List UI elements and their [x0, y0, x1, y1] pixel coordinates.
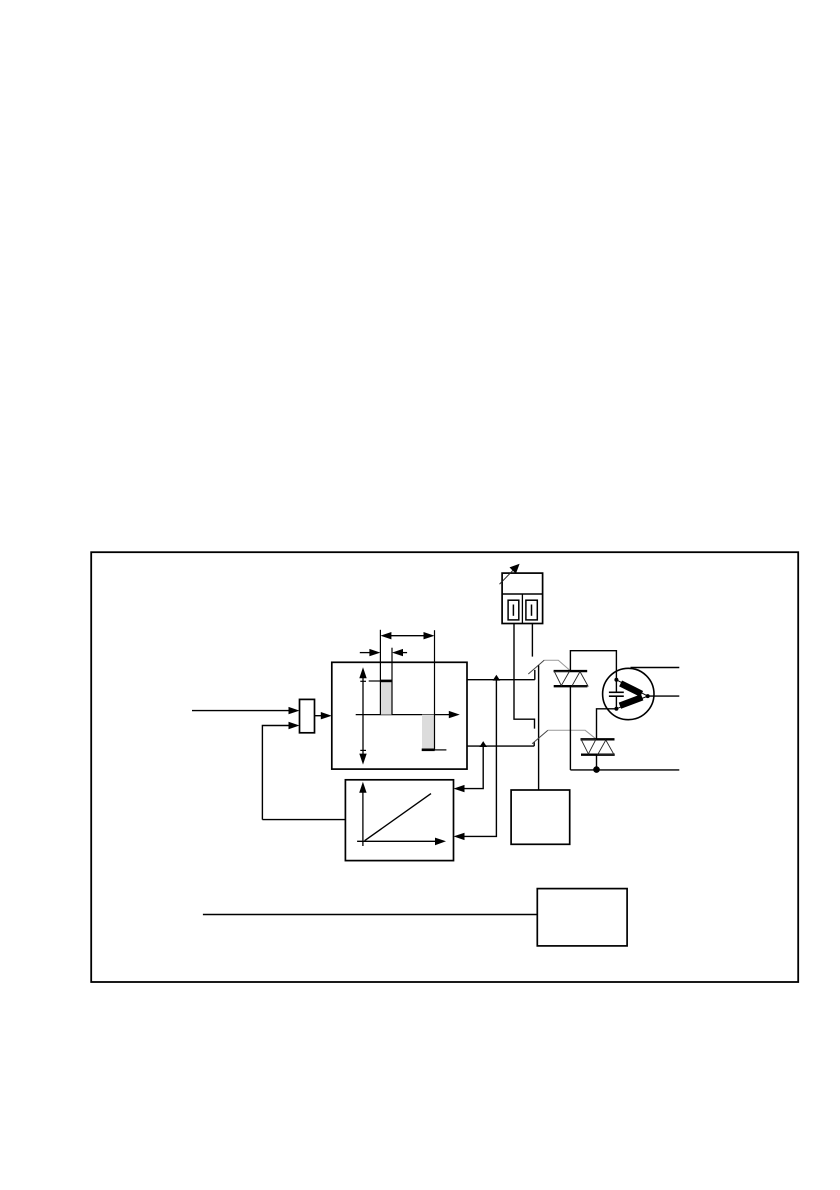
measurement line pulse end — [391, 648, 393, 715]
wire triac V2 bottom down — [596, 755, 598, 770]
wire mains bottom — [570, 769, 679, 771]
wire potentiometer left terminal down — [514, 624, 535, 729]
wire B to ramp upper input — [454, 746, 484, 792]
triac V2 right triangle — [598, 740, 614, 754]
PWM positive pulse bar — [369, 681, 393, 715]
ramp horizontal axis arrow — [357, 838, 446, 846]
wire mains middle — [648, 695, 680, 697]
wire feedback to comparator — [262, 722, 299, 820]
triac V1 right triangle — [572, 672, 588, 686]
dimension arrow pulse width right — [392, 649, 407, 656]
triac V1 bottom bar — [554, 685, 588, 687]
comparator block — [300, 699, 315, 732]
potentiometer adjustment arrow — [500, 564, 520, 585]
PWM block — [332, 662, 467, 769]
ramp slope line — [365, 794, 431, 841]
measurement line pulse start — [379, 630, 381, 715]
wire mains top — [631, 667, 680, 669]
dimension arrow period T — [380, 632, 434, 639]
measurement line period end — [434, 630, 436, 750]
junction node on wire B — [479, 741, 487, 747]
triac V1 left triangle — [554, 671, 569, 685]
wire triac V2 top to motor bottom node — [597, 709, 617, 740]
motor capacitor — [609, 680, 624, 709]
junction node bottom rail — [593, 766, 600, 773]
triac V2 left triangle — [581, 740, 596, 754]
wire PWM output B — [467, 742, 534, 746]
potentiometer terminal left — [508, 600, 519, 620]
motor circle M — [603, 668, 654, 719]
wire ramp output feedback — [262, 819, 345, 821]
ramp generator block — [345, 780, 453, 861]
ramp vertical axis arrow — [359, 782, 366, 846]
switch S2 blade — [532, 730, 548, 744]
potentiometer body — [502, 573, 542, 623]
wire load input — [203, 914, 537, 916]
motor node bottom — [614, 707, 618, 711]
switch S1 linkage to triac gate — [544, 660, 570, 670]
junction node on wire A — [493, 675, 501, 681]
triac V2 top bar — [581, 738, 615, 740]
switch S2 linkage to triac gate — [548, 730, 596, 739]
PWM amplitude axis vertical double arrow — [359, 667, 366, 764]
motor winding lower — [616, 696, 647, 709]
motor winding upper — [616, 680, 647, 696]
motor node top — [614, 678, 618, 682]
triac V2 bottom bar — [581, 754, 615, 756]
triac V1 top bar — [554, 670, 588, 672]
load block — [537, 889, 627, 946]
PWM time axis arrow — [356, 711, 460, 718]
dimension arrow pulse width left — [360, 649, 381, 656]
potentiometer terminal right — [526, 600, 537, 620]
wire potentiometer right terminal down — [531, 624, 533, 657]
motor node right — [646, 694, 650, 698]
wire common pole down to sync — [538, 665, 540, 790]
sync block — [511, 790, 570, 844]
switch S1 blade — [528, 660, 544, 674]
wire triac V1 bottom down — [569, 686, 571, 770]
wire PWM output A — [467, 670, 535, 680]
PWM negative pulse bar — [422, 715, 447, 750]
wire A to ramp lower input — [454, 680, 497, 840]
wire triac V1 top to motor — [570, 651, 616, 680]
wire input setpoint line — [192, 707, 300, 714]
wire comparator to PWM — [315, 712, 332, 719]
